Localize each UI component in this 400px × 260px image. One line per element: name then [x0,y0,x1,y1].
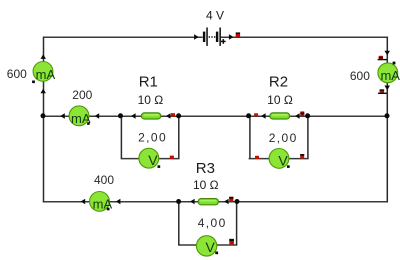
svg-text:2,00: 2,00 [269,131,298,145]
svg-text:10 Ω: 10 Ω [267,93,293,107]
svg-text:mA: mA [380,68,400,83]
svg-text:200: 200 [72,88,92,102]
svg-text:V: V [148,152,158,168]
svg-text:4 V: 4 V [206,8,224,22]
svg-text:V: V [278,152,288,168]
svg-text:mA: mA [93,197,113,212]
svg-text:600: 600 [350,69,370,83]
svg-text:R1: R1 [139,74,158,91]
svg-text:10 Ω: 10 Ω [138,93,164,107]
svg-text:mA: mA [36,67,56,82]
svg-text:V: V [206,239,216,255]
svg-text:600: 600 [7,67,27,81]
svg-text:2,00: 2,00 [138,131,167,145]
svg-text:4,00: 4,00 [198,216,227,230]
svg-text:400: 400 [94,173,114,187]
svg-text:R2: R2 [269,74,288,91]
svg-text:10 Ω: 10 Ω [193,178,219,192]
svg-text:R3: R3 [196,160,215,177]
